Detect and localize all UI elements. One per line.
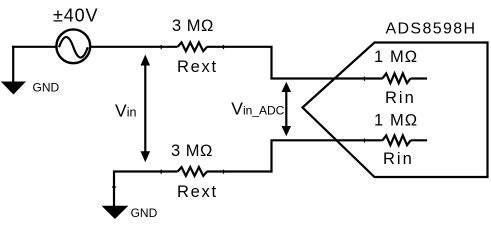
arrow Vin (double-headed) [144,63,146,154]
svg-text:3 MΩ: 3 MΩ [171,142,213,160]
svg-text:Rin: Rin [383,150,414,168]
wire: bottom rail from ground riser through Rext to step-up [114,172,178,207]
wire: AC source to Rext (top) [90,46,178,48]
svg-text:Rext: Rext [177,183,218,201]
ground (top left) [1,82,26,95]
svg-text:3 MΩ: 3 MΩ [172,17,214,35]
wire: ground riser (top left) [12,46,14,82]
svg-text:GND: GND [131,206,158,220]
junction tick [364,138,366,142]
arrow Vin_ADC (double-headed) [285,90,287,128]
wire: Rin lower right lead [411,139,427,141]
junction tick [223,45,225,49]
wire: Rext bottom to step-up into ADC lower input [207,140,383,171]
wire: left lead from ground riser to AC source [12,46,56,48]
svg-text:1 MΩ: 1 MΩ [374,48,418,66]
svg-text:±40V: ±40V [53,6,99,26]
junction tick [112,186,116,188]
svg-text:GND: GND [33,81,60,95]
resistor Rin (lower) 1 Mohm [383,135,411,145]
AC source sine wave [59,37,88,58]
wire: Rin upper right lead [411,77,427,79]
junction tick [160,45,162,49]
junction tick [160,170,162,174]
resistor Rin (upper) 1 Mohm [383,73,411,83]
svg-text:1 MΩ: 1 MΩ [374,111,418,129]
wire: Rext to step-down into ADC upper input [207,47,383,79]
svg-text:Rin: Rin [385,89,416,107]
junction tick [364,77,366,81]
svg-text:ADS8598H: ADS8598H [386,21,477,38]
junction tick [223,170,225,174]
resistor Rext (bottom) 3 Mohm [178,167,207,176]
ADS8598H block outline [303,43,488,178]
svg-text:Rext: Rext [177,58,218,76]
AC source V1 circle [56,29,90,63]
resistor Rext (top) 3 Mohm [178,42,207,51]
ground (bottom) [102,206,129,219]
